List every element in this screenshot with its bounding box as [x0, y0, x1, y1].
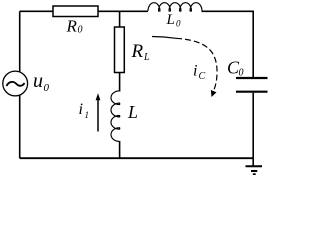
svg-text:u: u: [33, 70, 43, 92]
left vertical wire lower: [19, 95, 21, 158]
svg-text:0: 0: [44, 82, 50, 94]
AC source tilde: [7, 82, 25, 86]
arrowhead iC: [211, 90, 217, 97]
svg-text:R: R: [131, 41, 144, 62]
svg-text:L: L: [127, 102, 138, 122]
inductor L0: [148, 3, 202, 11]
svg-text:0: 0: [176, 19, 181, 29]
wire top-left horizontal (source top corner to R0): [20, 10, 53, 12]
left vertical wire upper: [19, 11, 21, 72]
svg-text:R: R: [66, 17, 78, 36]
ground: [252, 158, 254, 166]
svg-text:L: L: [166, 12, 175, 28]
AC source u0 circle: [3, 71, 28, 96]
svg-text:i: i: [79, 101, 83, 118]
capacitor C0 bottom plate: [236, 91, 268, 93]
svg-text:1: 1: [85, 110, 90, 120]
bottom wire: [20, 157, 254, 159]
svg-text:0: 0: [239, 68, 244, 79]
current arc iC dashed part: [176, 38, 217, 91]
inductor L (vertical): [111, 91, 120, 142]
current arc iC solid part: [152, 37, 176, 39]
svg-text:0: 0: [78, 25, 83, 36]
svg-text:i: i: [193, 63, 197, 80]
svg-text:C: C: [199, 71, 206, 82]
resistor R0: [53, 6, 98, 17]
middle branch: wire top to RL: [119, 11, 121, 27]
svg-text:L: L: [143, 52, 150, 63]
arrow i1: [97, 99, 99, 132]
capacitor C0 top plate: [236, 77, 268, 79]
wire RL to L: [119, 73, 121, 92]
wire R0 to L0: [98, 10, 148, 12]
resistor RL: [115, 27, 125, 73]
wire L0 to top-right corner and down to capacitor: [202, 11, 254, 77]
wire capacitor to bottom-right junction: [252, 93, 254, 158]
wire L to bottom: [119, 141, 121, 158]
